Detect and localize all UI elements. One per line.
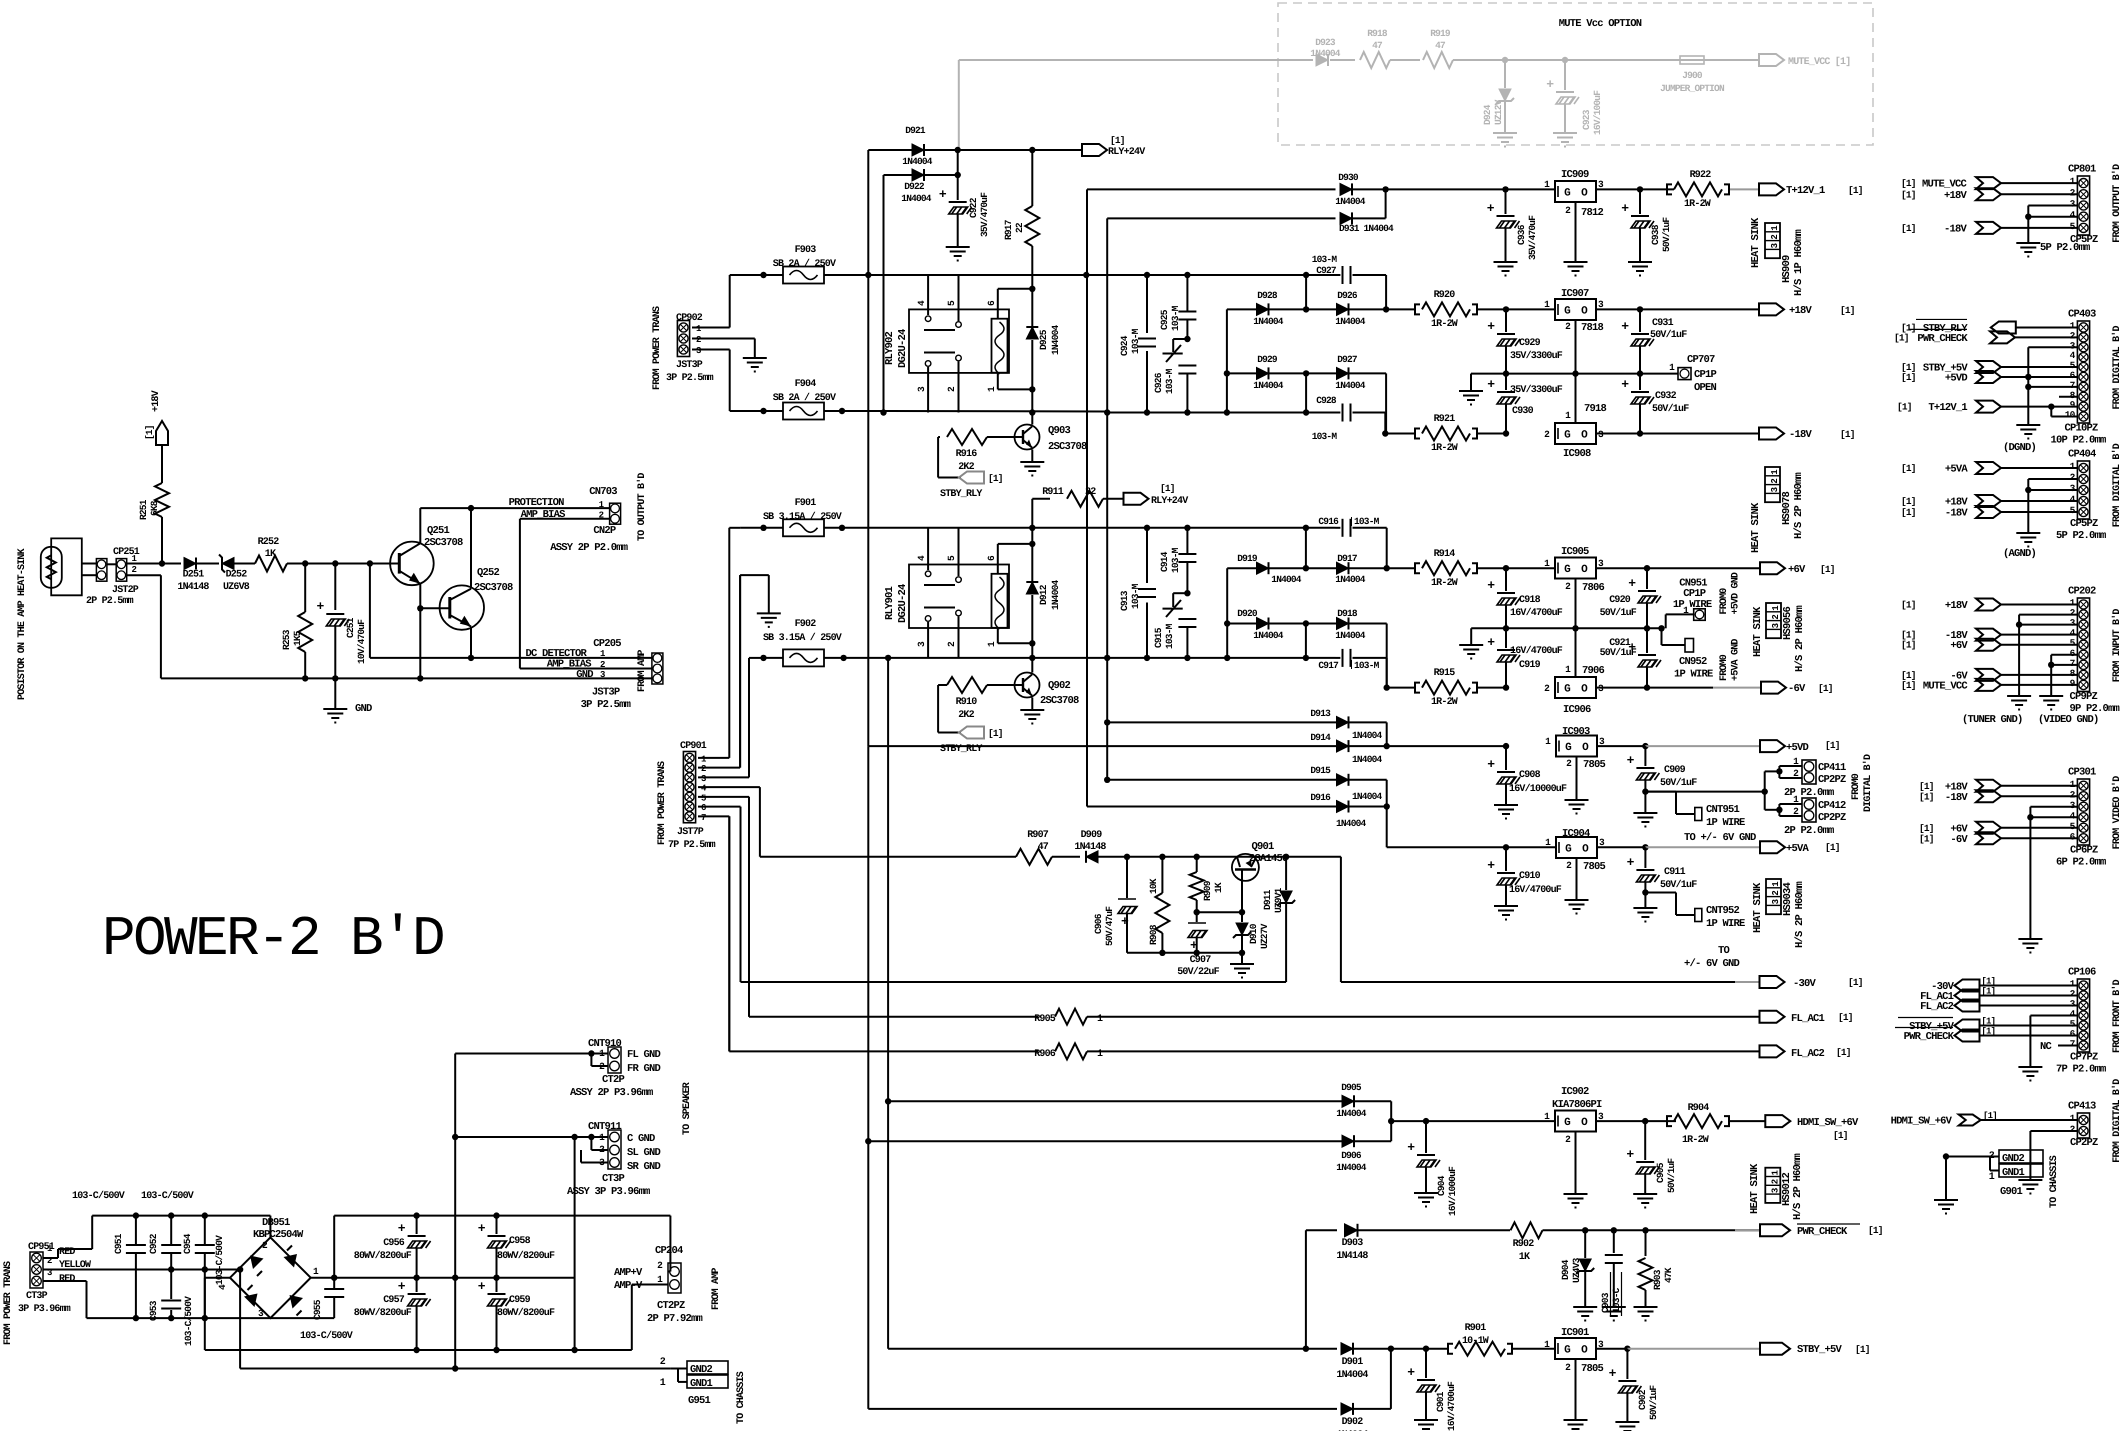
svg-text:R905: R905 — [1034, 1014, 1056, 1025]
svg-text:[1]: [1] — [1981, 977, 1995, 987]
wire -V rail — [205, 1349, 632, 1351]
svg-text:IC905: IC905 — [1561, 546, 1589, 558]
svg-text:10K: 10K — [1148, 878, 1159, 894]
node C908 — [1503, 743, 1509, 749]
svg-text:+: + — [398, 1279, 406, 1294]
svg-text:R253: R253 — [281, 629, 292, 650]
svg-text:1N4004: 1N4004 — [1335, 380, 1366, 391]
svg-text:CP2PZ: CP2PZ — [2070, 1137, 2098, 1149]
resistor R904 — [1645, 1120, 1676, 1122]
svg-text:7805: 7805 — [1583, 861, 1606, 873]
posistor symbol — [41, 547, 62, 588]
wire D918/D920 junction to rail B2 — [1305, 624, 1307, 658]
svg-text:+: + — [1621, 377, 1629, 392]
svg-text:F901: F901 — [795, 498, 817, 509]
svg-text:103-C/500V: 103-C/500V — [141, 1190, 194, 1202]
svg-text:FROM DIGITAL B'D: FROM DIGITAL B'D — [2111, 443, 2123, 527]
heatsink HS9078 — [1765, 467, 1780, 502]
resistor R907 — [1016, 849, 1052, 865]
flag FL_AC1 in (CP106) — [1955, 990, 1980, 1002]
flag +5VD in — [1976, 371, 2001, 383]
svg-text:1N4148: 1N4148 — [177, 582, 209, 593]
capacitor C914 — [1186, 528, 1188, 554]
svg-text:50V/47uF: 50V/47uF — [1104, 906, 1115, 946]
flag +18V up — [156, 421, 168, 445]
flag -18V — [1759, 428, 1784, 440]
connector CP707 — [1660, 373, 1678, 375]
diode D927 — [1306, 372, 1337, 374]
svg-text:KBPC2504W: KBPC2504W — [253, 1229, 304, 1241]
svg-text:CT2PZ: CT2PZ — [657, 1300, 685, 1312]
capacitor C913 — [1146, 528, 1148, 583]
svg-text:103-C/500V: 103-C/500V — [300, 1330, 353, 1342]
svg-text:2P P2.5mm: 2P P2.5mm — [86, 596, 134, 607]
svg-text:3P P2.5mm: 3P P2.5mm — [581, 699, 631, 711]
svg-text:C901: C901 — [1435, 1391, 1446, 1412]
node C936 — [1502, 186, 1508, 192]
wire GND line — [161, 677, 652, 679]
wire CP951 pin1 to bus T — [43, 1257, 58, 1259]
flag -6V in (CP301) — [1976, 832, 2001, 844]
svg-text:[1]: [1] — [1848, 977, 1863, 988]
resistor R908 — [1161, 857, 1163, 893]
relay RLY901 contact blade top — [924, 584, 955, 586]
svg-text:HEAT SINK: HEAT SINK — [1749, 1163, 1761, 1214]
wire to mute_vcc flag — [1453, 59, 1759, 61]
IC906 pin1 — [1575, 628, 1577, 677]
svg-text:50V/1uF: 50V/1uF — [1600, 647, 1637, 659]
wire Q251 collector to PROTECTION — [419, 508, 421, 543]
svg-text:HEAT SINK: HEAT SINK — [1750, 217, 1762, 268]
flag MUTE_VCC — [1759, 54, 1784, 66]
flag STBY_+5V in (CP106) — [1955, 1020, 1980, 1032]
svg-text:50V/1uF: 50V/1uF — [1660, 777, 1697, 789]
svg-text:2: 2 — [660, 1357, 666, 1368]
svg-text:R919: R919 — [1430, 28, 1451, 39]
svg-text:DB951: DB951 — [262, 1217, 290, 1229]
capacitor C918 — [1505, 568, 1507, 591]
svg-text:[1]: [1] — [1901, 178, 1916, 189]
svg-text:1N4004: 1N4004 — [1336, 1370, 1368, 1381]
wire pin6 line to D911 — [741, 981, 1287, 983]
svg-text:[1]: [1] — [1981, 987, 1995, 997]
svg-text:R904: R904 — [1688, 1103, 1710, 1114]
svg-text:50V/22uF: 50V/22uF — [1177, 966, 1219, 978]
svg-text:+: + — [1627, 753, 1635, 768]
capacitor C908 — [1505, 746, 1507, 770]
wire D916 feed vertical — [1086, 275, 1088, 807]
flag FL_AC1 — [1760, 1011, 1785, 1023]
svg-text:-6V: -6V — [1950, 834, 1968, 846]
wire CP106 gnd — [2030, 1015, 2077, 1017]
relay RLY901 pin3 — [927, 622, 929, 658]
svg-text:F903: F903 — [795, 245, 817, 256]
svg-text:80WV/8200uF: 80WV/8200uF — [497, 1307, 555, 1319]
svg-text:1N4004: 1N4004 — [1336, 1108, 1367, 1119]
jumper J900 — [1680, 56, 1704, 64]
diode D918 — [1306, 623, 1337, 625]
flag +18V in — [1976, 188, 2001, 200]
wire R909-Q901 mid line — [1197, 911, 1242, 913]
svg-text:C936: C936 — [1516, 224, 1527, 245]
svg-text:103-M: 103-M — [1130, 328, 1141, 354]
svg-text:[1]: [1] — [1160, 483, 1175, 494]
svg-text:1N4004: 1N4004 — [1253, 316, 1284, 327]
svg-text:1N4004: 1N4004 — [1335, 630, 1366, 641]
svg-text:1N4004: 1N4004 — [1050, 324, 1061, 355]
IC901 pin2 — [1575, 1359, 1577, 1420]
svg-text:103-M: 103-M — [1164, 368, 1175, 394]
svg-text:D904: D904 — [1560, 1259, 1571, 1280]
svg-text:3: 3 — [1770, 1188, 1780, 1193]
svg-text:+: + — [1407, 1140, 1415, 1155]
svg-text:+: + — [1621, 201, 1629, 216]
svg-text:FROM DIGITAL B'D: FROM DIGITAL B'D — [2111, 326, 2123, 410]
svg-text:+: + — [1487, 377, 1495, 392]
svg-text:IC902: IC902 — [1561, 1086, 1589, 1098]
connector CP412 — [1764, 792, 1766, 810]
flag +6V in (CP301) — [1976, 822, 2001, 834]
wire Q252 collector — [470, 508, 472, 589]
rail B2 wire F902 output — [844, 657, 889, 659]
flag MUTE_VCC in — [1976, 177, 2001, 189]
wire D-block anode vertical — [1226, 309, 1228, 412]
svg-text:35V/470uF: 35V/470uF — [1527, 215, 1538, 260]
rail A wire F903 output — [865, 272, 871, 278]
svg-text:ASSY 2P P2.0mm: ASSY 2P P2.0mm — [550, 542, 628, 554]
svg-text:D929: D929 — [1257, 354, 1278, 365]
svg-text:1R-2W: 1R-2W — [1431, 697, 1458, 708]
wire R907 line from CP901 pin4 — [759, 787, 761, 857]
wire T+12V to pins 9/10 — [2051, 406, 2077, 408]
resistor R251 +18V feed — [161, 517, 163, 564]
svg-text:2: 2 — [599, 511, 604, 521]
resistor R252 — [255, 556, 287, 572]
svg-text:D927: D927 — [1337, 354, 1358, 365]
relay RLY902 pin2 — [958, 362, 960, 413]
svg-text:103-M: 103-M — [1312, 254, 1338, 265]
IC906 7906 — [1555, 677, 1596, 698]
svg-text:1P WIRE: 1P WIRE — [1706, 918, 1745, 930]
svg-text:CNT911: CNT911 — [588, 1121, 622, 1133]
svg-text:RLY902: RLY902 — [884, 331, 896, 365]
capacitor C916 in series on rail A2 extension — [1336, 527, 1341, 529]
diode D923 — [1316, 54, 1328, 66]
svg-text:50V/1uF: 50V/1uF — [1660, 879, 1697, 891]
svg-text:KIA7806PI: KIA7806PI — [1552, 1099, 1602, 1111]
svg-text:R909: R909 — [1202, 880, 1213, 901]
wire R911 tap to rail A2 — [1031, 499, 1033, 544]
wire DC DETECTOR line — [369, 564, 371, 658]
capacitor C955 — [333, 1278, 335, 1288]
svg-text:+: + — [1487, 858, 1495, 873]
capacitor C906 — [1126, 857, 1128, 898]
svg-text:JST3P: JST3P — [592, 687, 620, 699]
svg-text:R252: R252 — [258, 537, 280, 548]
svg-text:+: + — [1487, 757, 1495, 772]
flag -6V — [1761, 682, 1786, 694]
svg-text:+: + — [1609, 1366, 1617, 1381]
svg-text:UZ12V: UZ12V — [1493, 99, 1504, 125]
node C923 junction — [1562, 57, 1568, 63]
svg-text:[1]: [1] — [1855, 1344, 1870, 1355]
svg-text:FROM FRONT B'D: FROM FRONT B'D — [2111, 979, 2123, 1053]
svg-text:FL GND: FL GND — [627, 1049, 661, 1061]
capacitor C959 — [496, 1278, 498, 1292]
svg-text:J900: J900 — [1682, 70, 1703, 81]
svg-text:103-M: 103-M — [1170, 547, 1181, 573]
wire bottom loop Q901 — [1127, 952, 1242, 954]
capacitor C926 — [1173, 338, 1187, 340]
svg-text:D931 1N4004: D931 1N4004 — [1339, 223, 1394, 234]
svg-text:10V/470uF: 10V/470uF — [356, 619, 367, 664]
svg-text:C932: C932 — [1655, 391, 1677, 402]
svg-text:D905: D905 — [1341, 1082, 1362, 1093]
capacitor C901 — [1425, 1349, 1427, 1378]
svg-text:CP10PZ: CP10PZ — [2064, 423, 2098, 435]
svg-text:D928: D928 — [1257, 290, 1278, 301]
node C910 — [1503, 844, 1509, 850]
svg-text:R902: R902 — [1513, 1239, 1535, 1250]
svg-text:50V/1uF: 50V/1uF — [1661, 217, 1672, 252]
svg-text:D924: D924 — [1482, 104, 1493, 125]
wire D916 line — [1087, 806, 1337, 808]
flag PWR_CHECK in — [1990, 331, 2015, 343]
svg-text:1N4004: 1N4004 — [1271, 574, 1302, 585]
svg-text:FROM POWER TRANS: FROM POWER TRANS — [652, 306, 663, 390]
diode D909 — [1086, 851, 1098, 863]
resistor R910 — [947, 677, 987, 693]
flag PWR_CHECK — [1735, 1229, 1760, 1231]
connector CN951 — [1665, 614, 1667, 628]
svg-text:16V/4700uF: 16V/4700uF — [1509, 884, 1562, 896]
capacitor C251 — [334, 564, 336, 611]
svg-text:+18V: +18V — [151, 390, 162, 412]
svg-text:CNT952: CNT952 — [1706, 905, 1740, 917]
svg-text:103-M: 103-M — [1164, 623, 1175, 649]
wire D913/D915 feed vertical — [1106, 658, 1108, 780]
svg-text:IC909: IC909 — [1561, 169, 1589, 181]
svg-text:HS9056: HS9056 — [1782, 606, 1794, 640]
svg-text:C910: C910 — [1519, 871, 1541, 882]
svg-text:-18V: -18V — [1944, 223, 1968, 235]
svg-text:D902: D902 — [1342, 1417, 1364, 1428]
svg-text:PWR_CHECK: PWR_CHECK — [1797, 1226, 1848, 1238]
svg-text:H/S 2P H60mm: H/S 2P H60mm — [1794, 605, 1806, 672]
flag STBY_RLY 1 — [959, 472, 984, 484]
svg-text:2: 2 — [1770, 235, 1780, 240]
svg-text:3: 3 — [701, 774, 706, 784]
capacitor C931 — [1639, 309, 1641, 332]
resistor R906 — [1055, 1043, 1087, 1059]
wire CNT911 wires — [455, 1136, 608, 1138]
flag +5VA — [1760, 841, 1785, 853]
svg-text:C904: C904 — [1436, 1175, 1447, 1196]
svg-text:D913: D913 — [1310, 708, 1331, 719]
svg-text:16V/4700uF: 16V/4700uF — [1510, 645, 1563, 657]
svg-text:R901: R901 — [1465, 1323, 1487, 1334]
svg-text:35V/3300uF: 35V/3300uF — [1510, 350, 1563, 362]
svg-text:[1]: [1] — [1894, 332, 1909, 343]
svg-text:+18V: +18V — [1789, 305, 1813, 317]
svg-text:C902: C902 — [1637, 1389, 1648, 1410]
flag FL_AC2 — [1760, 1045, 1785, 1057]
transistor Q902 — [1031, 658, 1033, 673]
capacitor C925 — [1186, 275, 1188, 311]
svg-text:R916: R916 — [956, 449, 978, 460]
svg-text:3: 3 — [1770, 243, 1780, 248]
wire Q902 emitter to gnd — [1031, 698, 1033, 711]
capacitor C917 in series on rail B2 extension — [1336, 657, 1341, 659]
mid ground rail block1 — [1471, 373, 1660, 375]
flag -18V in — [1976, 222, 2001, 234]
svg-text:AMP_BIAS: AMP_BIAS — [521, 509, 566, 521]
svg-text:[1]: [1] — [1919, 791, 1934, 802]
svg-text:UZ4V3: UZ4V3 — [1571, 1257, 1582, 1283]
svg-text:(VIDEO GND): (VIDEO GND) — [2038, 714, 2099, 726]
gnd Q901 — [1241, 953, 1243, 964]
flag -30V in (CP106) — [1955, 980, 1980, 992]
svg-text:-6V: -6V — [1788, 683, 1806, 695]
svg-text:7812: 7812 — [1581, 207, 1604, 219]
svg-text:+5VD: +5VD — [1786, 742, 1809, 754]
wire D902 line — [868, 1408, 1337, 1410]
svg-text:50V/1uF: 50V/1uF — [1650, 329, 1687, 341]
svg-text:SL GND: SL GND — [627, 1147, 661, 1159]
svg-text:MUTE_VCC: MUTE_VCC — [1923, 680, 1969, 692]
svg-text:[1]: [1] — [1868, 1225, 1883, 1236]
wire D905 line — [888, 1100, 1342, 1102]
resistor R914 — [1387, 567, 1414, 569]
wire D906 line — [868, 1140, 1342, 1142]
svg-text:IC906: IC906 — [1563, 704, 1591, 716]
svg-text:C931: C931 — [1652, 318, 1674, 329]
resistor R902 — [1511, 1222, 1543, 1238]
capacitor C929 — [1505, 309, 1507, 332]
wire D927 output corner — [1385, 373, 1387, 433]
svg-text:FROM VIDEO B'D: FROM VIDEO B'D — [2111, 776, 2123, 850]
wire AMP_BIAS vertical link — [520, 518, 610, 520]
svg-text:HS9034: HS9034 — [1782, 882, 1794, 916]
label NC pin7 — [2058, 1045, 2077, 1047]
svg-text:[1]: [1] — [1848, 185, 1863, 196]
svg-text:+6V: +6V — [1788, 564, 1806, 576]
wire +V top rail — [333, 1216, 335, 1278]
diode D926 — [1306, 308, 1337, 310]
wire CP403 pin8 stub — [2059, 396, 2077, 398]
wire CP202 tuner gnd — [2019, 614, 2077, 616]
wire D927/D929 junction to rail B — [1305, 373, 1307, 412]
svg-text:80WV/8200uF: 80WV/8200uF — [497, 1250, 555, 1262]
svg-text:[1]: [1] — [1110, 135, 1125, 146]
svg-text:35V/3300uF: 35V/3300uF — [1510, 384, 1563, 396]
svg-text:6K8: 6K8 — [149, 500, 160, 516]
svg-text:Q251: Q251 — [427, 525, 450, 537]
svg-text:C919: C919 — [1519, 660, 1541, 671]
svg-text:C938: C938 — [1650, 224, 1661, 245]
node C929 junction — [1503, 306, 1509, 312]
svg-text:C923: C923 — [1581, 109, 1592, 130]
wire D930 line — [1087, 188, 1336, 190]
svg-text:DIGITAL B'D: DIGITAL B'D — [1862, 754, 1874, 812]
svg-text:C251: C251 — [345, 617, 356, 638]
svg-text:FROM INPUT B'D: FROM INPUT B'D — [2111, 609, 2123, 683]
svg-text:RLY+24V: RLY+24V — [1108, 147, 1145, 158]
svg-text:GND1: GND1 — [2002, 1167, 2025, 1179]
flag +5VA in — [1976, 462, 2001, 474]
svg-text:7806: 7806 — [1582, 582, 1605, 594]
relay RLY902 contact blade top — [924, 329, 955, 331]
IC903 pin2 — [1576, 757, 1578, 801]
IC905 pin2 — [1575, 579, 1577, 629]
connector CNT952 — [1645, 892, 1676, 894]
wire +5VD to CP411/CP412 — [1645, 791, 1764, 793]
svg-text:C930: C930 — [1512, 406, 1534, 417]
relay RLY901 — [909, 565, 1009, 629]
heatsink HS9056 — [1766, 603, 1781, 638]
svg-text:(DGND): (DGND) — [2003, 442, 2036, 454]
svg-text:MUTE_VCC: MUTE_VCC — [1922, 179, 1968, 191]
svg-text:16V/4700uF: 16V/4700uF — [1446, 1381, 1457, 1431]
capacitor C909 — [1644, 746, 1646, 766]
resistor R920 — [1386, 308, 1414, 310]
svg-text:1R-2W: 1R-2W — [1431, 443, 1458, 454]
flag PWR_CHECK in (CP106) — [1955, 1030, 1980, 1042]
svg-text:D909: D909 — [1081, 830, 1103, 841]
transistor Q251 — [390, 542, 434, 586]
relay RLY901 contact blade bottom — [924, 607, 955, 609]
svg-text:5P P2.0mm: 5P P2.0mm — [2040, 242, 2090, 254]
zener D924 — [1504, 60, 1506, 88]
svg-text:T+12V_1: T+12V_1 — [1786, 185, 1825, 197]
svg-text:+: + — [398, 1221, 406, 1236]
svg-text:TO SPEAKER: TO SPEAKER — [682, 1082, 693, 1135]
diode D920 — [1227, 623, 1257, 625]
svg-text:SB 3.15A / 250V: SB 3.15A / 250V — [763, 511, 842, 523]
resistor R921 — [1385, 433, 1414, 435]
IC904 pin2 — [1576, 858, 1578, 900]
wire main line CP251 pin1 — [107, 563, 116, 565]
svg-text:+: + — [478, 1221, 486, 1236]
resistor R253 — [304, 564, 306, 613]
svg-text:2SC3708: 2SC3708 — [474, 582, 513, 594]
svg-text:CP413: CP413 — [2068, 1101, 2096, 1113]
svg-text:D903: D903 — [1342, 1238, 1364, 1249]
node RLY+24V junctions — [955, 147, 961, 153]
svg-text:-18V: -18V — [1945, 508, 1969, 520]
capacitor C957 — [416, 1278, 418, 1292]
svg-text:R907: R907 — [1027, 830, 1049, 841]
svg-text:103-M: 103-M — [1354, 660, 1380, 671]
svg-text:MUTE_VCC [1]: MUTE_VCC [1] — [1788, 56, 1850, 68]
wire D921 feed from rail A — [867, 150, 869, 275]
svg-text:CP202: CP202 — [2068, 586, 2096, 598]
svg-text:[1]: [1] — [1919, 781, 1934, 792]
node C901 — [1423, 1346, 1429, 1352]
svg-text:1K: 1K — [1213, 882, 1224, 893]
svg-text:+5VA: +5VA — [1945, 464, 1969, 476]
svg-text:2: 2 — [701, 764, 706, 774]
svg-text:CN2P: CN2P — [593, 525, 616, 537]
svg-text:2: 2 — [1770, 479, 1780, 484]
svg-text:C905: C905 — [1655, 1162, 1666, 1183]
svg-text:R908: R908 — [1148, 924, 1159, 945]
svg-text:5P P2.0mm: 5P P2.0mm — [2056, 530, 2106, 542]
svg-text:C926: C926 — [1153, 372, 1164, 393]
svg-text:1: 1 — [1097, 1014, 1103, 1025]
diode D903 — [1345, 1224, 1358, 1237]
svg-text:D914: D914 — [1310, 732, 1331, 743]
